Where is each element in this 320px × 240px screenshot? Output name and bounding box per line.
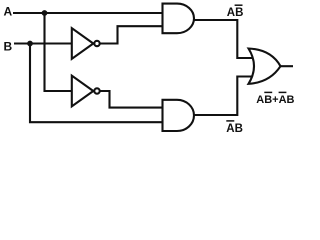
OR gate OR1 (output) [249,49,281,84]
label AbarB on AND2 output [226,121,243,135]
AND gate AND2 (Abar AND B) [163,100,194,131]
inverter U2 (A to Abar) [72,76,94,107]
svg-text:A: A [4,5,13,19]
wire B branch down and along bottom to AND2 lower input [30,44,163,123]
svg-text:AB+AB: AB+AB [256,94,294,106]
wire U2 output step down to AND2 upper input [100,91,163,108]
label ABbar+AbarB on OR output [256,92,294,105]
wire OR output [280,65,294,67]
label ABbar on AND1 output [227,5,244,19]
svg-text:AB: AB [226,123,243,135]
svg-text:AB: AB [227,7,244,19]
node B junction dot [27,41,33,47]
svg-text:B: B [4,40,13,54]
wire AND1 output down to OR upper input [193,20,256,58]
AND gate AND1 (A AND Bbar) [163,4,195,34]
wire U1 output step up to AND1 lower input [100,26,163,43]
node A junction dot [42,10,48,16]
wire A branch down to inverter U2 input [45,13,73,91]
wire B input to inverter U1 input [14,42,72,44]
inverter U1 (B to Bbar) [72,28,94,59]
wire AND2 output up to OR lower input [193,77,256,116]
wire A input to AND1 top input [13,12,163,14]
